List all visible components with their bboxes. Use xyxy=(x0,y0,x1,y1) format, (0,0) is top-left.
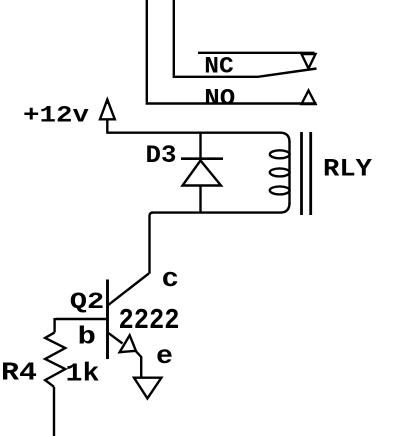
diode D3 cathode bar xyxy=(181,157,223,160)
wire: base line xyxy=(56,318,107,320)
resistor R4 zigzag xyxy=(45,332,65,386)
relay core bar 1 xyxy=(300,132,303,215)
wire: common arm to contact xyxy=(173,69,317,77)
transistor Q2 collector diagonal xyxy=(108,274,149,306)
relay coil RLY right side xyxy=(288,141,290,204)
svg-text:e: e xyxy=(156,341,173,371)
wire: relay bottom to collector xyxy=(150,213,154,274)
svg-text:2222: 2222 xyxy=(119,304,180,337)
wire: NC contact line xyxy=(198,52,315,54)
relay core bar 2 xyxy=(309,132,312,215)
relay contact NO terminal triangle xyxy=(302,91,316,105)
svg-text:R4: R4 xyxy=(1,359,37,388)
wire: emitter to ground xyxy=(136,351,141,377)
wire: base to resistor xyxy=(53,318,55,332)
svg-text:RLY: RLY xyxy=(323,155,372,184)
svg-text:1k: 1k xyxy=(66,359,100,388)
relay contact NC terminal triangle xyxy=(302,54,316,69)
svg-text:Q2: Q2 xyxy=(70,289,105,316)
wire: left vertical from top to NO line xyxy=(146,0,148,102)
ground symbol xyxy=(134,378,161,399)
coil loop 2 xyxy=(270,168,290,176)
svg-text:NO: NO xyxy=(204,86,235,113)
svg-text:NC: NC xyxy=(204,53,234,80)
svg-text:c: c xyxy=(162,265,180,295)
coil loop 3 xyxy=(270,186,290,194)
diode D3 triangle xyxy=(183,161,222,186)
svg-text:+12v: +12v xyxy=(23,103,89,130)
transistor Q2 emitter diagonal xyxy=(108,333,123,344)
svg-text:D3: D3 xyxy=(146,141,177,170)
diode D3 anode lead xyxy=(199,186,201,213)
svg-text:b: b xyxy=(78,323,97,352)
power symbol +12v arrow xyxy=(100,100,115,120)
transistor Q2 emitter arrow xyxy=(120,335,136,352)
coil loop 1 xyxy=(270,150,290,158)
wire: +12v rail to relay coil top xyxy=(106,133,289,142)
wire: common arm vertical from top xyxy=(173,0,175,76)
diode D3 cathode lead xyxy=(199,133,201,158)
transistor Q2 base bar xyxy=(106,280,109,360)
wire: resistor to bottom edge xyxy=(53,387,55,436)
wire: NO contact line xyxy=(146,102,317,104)
